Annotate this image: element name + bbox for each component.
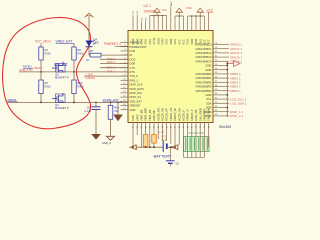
svg-text:GND_A: GND_A	[102, 141, 111, 145]
resistor R14	[110, 102, 112, 105]
wire LED to R7	[88, 47, 90, 55]
wire top pin to rail	[157, 16, 159, 31]
svg-text:NC: NC	[141, 17, 143, 21]
annotation loop (red freehand circle)	[3, 17, 91, 128]
svg-text:GND: GND	[174, 39, 177, 45]
svg-text:AGND_MIC: AGND_MIC	[156, 107, 160, 121]
svg-text:C6: C6	[87, 106, 91, 110]
wire pin60	[157, 128, 159, 139]
power port VCC arrow 1	[154, 8, 160, 12]
wire top pin to rail	[199, 16, 201, 31]
power port VCC arrow 2	[176, 8, 182, 12]
wire pin62	[166, 128, 168, 142]
svg-text:GND: GND	[206, 64, 212, 68]
svg-text:GPIO7/KBR2: GPIO7/KBR2	[196, 80, 212, 84]
wire VCC_MCU to R4	[40, 44, 42, 48]
svg-text:GND: GND	[131, 115, 135, 121]
svg-text:GSM1$: GSM1$	[86, 76, 96, 80]
pin 21 GPIO3/KBC3 (right)	[213, 56, 222, 58]
svg-text:ADC: ADC	[170, 1, 173, 6]
svg-text:VBAT_BBB: VBAT_BBB	[144, 108, 148, 121]
resistor R7	[90, 53, 101, 57]
svg-text:NRESET: NRESET	[130, 104, 141, 108]
svg-text:SIM HOLDER: SIM HOLDER	[189, 132, 205, 135]
svg-text:MIC2P_NN: MIC2P_NN	[177, 108, 181, 121]
power rail 2	[175, 15, 183, 17]
svg-text:BATTERY: BATTERY	[154, 154, 172, 159]
resistor R6	[39, 80, 43, 94]
power flag VBAT top	[85, 13, 94, 17]
wire bottom pins through connector	[182, 128, 184, 158]
thermistor R15 (highlighted orange)	[153, 128, 155, 135]
wire top pin to rail	[166, 16, 168, 31]
wire R8 to node A	[73, 60, 75, 71]
pin 3 DTR (left)	[121, 50, 129, 52]
pin 33 VDD (right)	[213, 107, 222, 109]
svg-text:SPK2N_P: SPK2N_P	[190, 109, 194, 121]
svg-text:SCL: SCL	[206, 97, 212, 101]
wire top pin to rail	[178, 16, 180, 31]
svg-text:RXD_1: RXD_1	[130, 78, 139, 82]
wire top pin to rail	[191, 16, 193, 31]
power port VCC arrow 3	[197, 8, 203, 12]
svg-text:VBAT_BB: VBAT_BB	[140, 109, 144, 121]
svg-text:VRTC: VRTC	[162, 38, 165, 45]
battery B1	[161, 128, 163, 141]
capacitor C6	[95, 102, 97, 106]
wire node A to R10	[73, 72, 75, 80]
wire pin57 to rail	[140, 128, 142, 148]
capacitor C8 below battery	[166, 160, 175, 162]
wire R4 to node A	[40, 60, 42, 71]
svg-text:VCC_MCU: VCC_MCU	[35, 40, 51, 44]
pin 4 RI (left)	[121, 54, 129, 56]
svg-text:MOSFET P: MOSFET P	[55, 106, 69, 110]
pin 12 DISP_DATA (left)	[121, 88, 129, 90]
svg-text:VCC: VCC	[186, 6, 193, 10]
svg-text:GND: GND	[199, 39, 202, 45]
svg-text:VBAT: VBAT	[136, 38, 139, 45]
pin 26 GPIO6/KBR1 (right)	[213, 77, 222, 79]
svg-text:GND: GND	[187, 39, 190, 45]
wire top pin to rail	[187, 16, 189, 31]
svg-text:SPK2P_N: SPK2P_N	[186, 109, 190, 121]
svg-text:LED: LED	[94, 41, 99, 45]
svg-text:VRTC: VRTC	[135, 114, 139, 121]
svg-text:F1 1A: F1 1A	[158, 131, 165, 134]
svg-text:VCHG: VCHG	[153, 37, 156, 44]
pin 22 GPIO4/KBC4 (right)	[213, 60, 222, 62]
op-amp U2 (GSM module IC body)	[128, 31, 213, 123]
ground right of R14	[117, 102, 119, 114]
svg-text:DISP_CLK: DISP_CLK	[130, 83, 143, 87]
pin 24 GND (right)	[213, 69, 222, 71]
wire pin55 to rail	[132, 128, 134, 148]
junction	[226, 107, 228, 109]
wire pin to GND bus	[222, 65, 227, 67]
pin 18 GPIO0/KBC0 (right)	[213, 44, 222, 46]
pin 8 RTS (left)	[121, 71, 129, 73]
svg-text:DISP_CS: DISP_CS	[130, 95, 142, 99]
power rail 3	[188, 15, 205, 17]
svg-text:U2 1: U2 1	[144, 4, 152, 8]
svg-text:SIM_CLKK: SIM_CLKK	[207, 108, 211, 121]
junction	[226, 94, 228, 96]
svg-text:R331: R331	[45, 51, 52, 55]
svg-text:0.1uF: 0.1uF	[85, 109, 92, 113]
resistor R4	[39, 47, 43, 60]
wire top pin stub	[136, 15, 138, 31]
svg-text:R7: R7	[90, 49, 94, 53]
svg-text:SDA: SDA	[206, 101, 212, 105]
wire RXD row	[100, 63, 128, 65]
pin 19 GPIO1/KBC1 (right)	[213, 48, 222, 50]
junction	[226, 65, 228, 67]
svg-text:GND: GND	[149, 39, 152, 45]
ground AGND below R14	[107, 136, 115, 140]
transistor Q4 (MOSFET P)	[52, 98, 57, 100]
svg-text:MOSFET P: MOSFET P	[55, 76, 69, 80]
svg-text:R331: R331	[78, 51, 85, 55]
svg-text:VBAT: VBAT	[195, 38, 198, 45]
pin 11 DISP_CLK (left)	[121, 84, 129, 86]
power port arrow VBAT (right)	[227, 63, 234, 65]
svg-text:R10: R10	[78, 81, 83, 85]
GND bus (right vertical wire)	[226, 61, 228, 117]
svg-text:VCC: VCC	[183, 39, 186, 44]
pin 25 GPIO5/KBR0 (right)	[213, 73, 222, 75]
svg-text:GPIO1/KBC1: GPIO1/KBC1	[196, 47, 212, 51]
svg-text:GND: GND	[206, 93, 212, 97]
svg-text:VBAT: VBAT	[191, 38, 194, 45]
wire GSM row	[84, 75, 128, 77]
wire node A to R6	[40, 72, 42, 80]
svg-text:SIM_VDDD: SIM_VDDD	[198, 108, 202, 121]
pin 27 GPIO7/KBR2 (right)	[213, 81, 222, 83]
connector J1 (green SIM holder)	[184, 137, 209, 152]
wire top pin to rail	[195, 16, 197, 31]
svg-text:NC: NC	[146, 17, 148, 21]
pin 13 DISP_D/C (left)	[121, 92, 129, 94]
pin 2 PWRKEYOUT (left)	[121, 46, 129, 48]
pin 15 VDD_EXT (left)	[121, 100, 129, 102]
pin 31 SCL (right)	[213, 98, 222, 100]
svg-text:MIC1N_PP: MIC1N_PP	[165, 108, 169, 121]
pin 5 DCD (left)	[121, 58, 129, 60]
svg-text:RTS 1: RTS 1	[107, 70, 115, 74]
svg-text:DSR: DSR	[130, 62, 136, 66]
svg-text:VBAT: VBAT	[132, 38, 135, 45]
svg-text:R8: R8	[78, 48, 82, 52]
wire top pin to rail	[149, 16, 151, 31]
power port arrow (right of battery)	[172, 145, 178, 150]
svg-text:Sim300: Sim300	[219, 125, 231, 129]
svg-text:DISP_2 1: DISP_2 1	[230, 114, 244, 118]
wire top pin to rail	[161, 16, 163, 31]
svg-text:GND: GND	[206, 68, 212, 72]
wire DBG row	[100, 67, 128, 69]
svg-text:GND: GND	[145, 39, 148, 45]
pin 17 GND (left)	[121, 109, 129, 111]
svg-text:ADC0: ADC0	[157, 37, 160, 44]
wire C6 to ground	[95, 109, 97, 134]
svg-text:R4: R4	[45, 48, 49, 52]
wire battery minus down to C8	[169, 147, 171, 160]
svg-text:GPIO3/KBC3: GPIO3/KBC3	[196, 55, 212, 59]
wire top pin to rail	[182, 16, 184, 31]
wire top pin to rail	[174, 16, 176, 31]
wire top pin to rail	[153, 16, 155, 31]
pin 30 GND (right)	[213, 94, 222, 96]
wire RXD row (node B)	[8, 101, 129, 103]
fuse F1 (highlighted orange)	[145, 128, 147, 135]
svg-text:R14: R14	[114, 106, 119, 110]
pin 20 GPIO2/KBC2 (right)	[213, 52, 222, 54]
svg-text:MRXD: MRXD	[8, 98, 18, 102]
wire top pin stub	[145, 22, 147, 31]
pin 10 RXD_1 (left)	[121, 79, 129, 81]
svg-text:VBAT: VBAT	[141, 38, 144, 45]
wire pins down to rail area	[170, 128, 172, 145]
svg-text:GND: GND	[166, 39, 169, 45]
wire top pin stub	[140, 22, 142, 31]
svg-text:GND_BB: GND_BB	[152, 110, 156, 121]
svg-text:GPIO5/KBR0: GPIO5/KBR0	[196, 72, 212, 76]
svg-text:+: +	[158, 137, 160, 141]
svg-text:1K: 1K	[86, 58, 89, 62]
svg-text:GPIO2/KBC2: GPIO2/KBC2	[196, 51, 212, 55]
wire flag to LED	[88, 17, 90, 41]
svg-text:R331: R331	[78, 84, 85, 88]
wire top pin stub	[132, 15, 134, 31]
resistor R10	[72, 80, 76, 94]
wire R6 to RXD row	[40, 94, 42, 103]
pin 1 PWRKEY (left)	[121, 42, 129, 44]
svg-text:MIC2N_P: MIC2N_P	[182, 110, 186, 121]
svg-text:VCC: VCC	[207, 8, 214, 12]
wire PWRKEY stub	[115, 45, 128, 47]
pin 32 SDA (right)	[213, 102, 222, 104]
power port arrow VBAT (left of battery rail)	[130, 145, 136, 150]
wire VCC to pin	[208, 13, 210, 31]
wire connector bottom rail	[183, 156, 204, 158]
svg-text:GND_SIM: GND_SIM	[194, 109, 198, 121]
junction	[226, 69, 228, 71]
svg-text:KBR4 1: KBR4 1	[230, 89, 241, 93]
svg-text:VCC: VCC	[162, 8, 168, 12]
svg-text:GND: GND	[130, 108, 136, 112]
svg-text:R6: R6	[45, 81, 49, 85]
svg-text:R331: R331	[45, 84, 52, 88]
svg-text:PWRKEY 1: PWRKEY 1	[104, 42, 121, 46]
svg-text:DISP_D/C: DISP_D/C	[130, 91, 142, 95]
wire TXD row	[100, 58, 128, 60]
svg-text:SIM_DATA: SIM_DATA	[203, 108, 207, 121]
svg-text:LCD_SDA 1: LCD_SDA 1	[230, 102, 247, 106]
svg-text:DISP_DATA: DISP_DATA	[130, 87, 145, 91]
svg-text:SPK1N_PP: SPK1N_PP	[173, 108, 177, 121]
svg-text:TXD_0: TXD_0	[130, 74, 139, 78]
pin 9 TXD_0 (left)	[121, 75, 129, 77]
svg-text:GPIO9/KBR4: GPIO9/KBR4	[196, 89, 212, 93]
svg-text:GPIO4/KBC4: GPIO4/KBC4	[196, 59, 212, 63]
pin 29 GPIO9/KBR4 (right)	[213, 90, 222, 92]
svg-text:RI: RI	[130, 53, 133, 57]
pin 23 GND (right)	[213, 65, 222, 67]
svg-text:CTS: CTS	[130, 66, 136, 70]
svg-text:VCC: VCC	[178, 39, 181, 44]
wire TXD row (node A)	[19, 71, 128, 73]
wire top pin stub	[170, 7, 172, 31]
power rail 1	[150, 15, 167, 17]
pin 14 DISP_CS (left)	[121, 96, 129, 98]
wire pin59 to rail	[149, 128, 151, 148]
LED D4	[86, 41, 93, 47]
wire R10 to RXD row	[73, 94, 75, 103]
svg-text:DCD: DCD	[130, 57, 136, 61]
resistor R8	[72, 47, 76, 60]
wire stub pin56	[136, 128, 138, 136]
pin 28 GPIO8/KBR3 (right)	[213, 86, 222, 88]
svg-text:GPIO8/KBR3: GPIO8/KBR3	[196, 85, 212, 89]
svg-text:VCC: VCC	[204, 39, 207, 44]
svg-text:VREG_EXT: VREG_EXT	[56, 40, 73, 44]
svg-text:10K: 10K	[114, 109, 119, 113]
pin 34 PWM0 (right)	[213, 111, 222, 113]
svg-text:VBAT_BB: VBAT_BB	[148, 109, 152, 121]
svg-text:VBAT1: VBAT1	[34, 66, 43, 70]
svg-text:GSM_TXD: GSM_TXD	[19, 68, 33, 72]
pin 6 DSR (left)	[121, 63, 129, 65]
wire R7 to U2 pin	[101, 54, 128, 56]
svg-text:SPK1P_NN: SPK1P_NN	[169, 108, 173, 121]
wire VREG_EXT to R8	[73, 44, 75, 48]
svg-text:RTS: RTS	[130, 70, 136, 74]
battery rail wire	[136, 146, 163, 148]
pin 35 PWM1 (right)	[213, 115, 222, 117]
transistor Q3 (MOSFET P)	[52, 67, 57, 69]
wire pin to GND bus	[222, 107, 227, 109]
pin 7 CTS (left)	[121, 67, 129, 69]
svg-text:GPIO6/KBR1: GPIO6/KBR1	[196, 76, 212, 80]
wire pin to GND bus	[222, 94, 227, 96]
wire pin to GND bus	[222, 69, 227, 71]
wire R14 to ground	[110, 119, 112, 136]
ground below C6	[91, 134, 101, 140]
wire top pin to rail	[203, 16, 205, 31]
svg-text:DTR: DTR	[130, 49, 136, 53]
svg-text:MIC1P_NN: MIC1P_NN	[161, 108, 165, 121]
svg-text:VCC: VCC	[208, 39, 211, 44]
svg-text:VBAT: VBAT	[170, 38, 173, 45]
svg-text:VDD_EXT: VDD_EXT	[130, 99, 143, 103]
pin 16 NRESET (left)	[121, 105, 129, 107]
